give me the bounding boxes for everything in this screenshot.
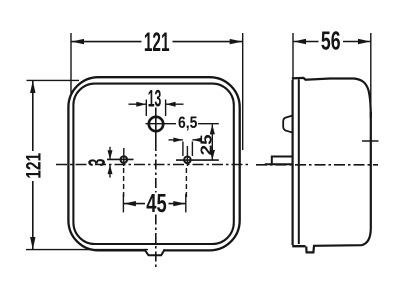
dimension 13 (top hole) [145, 100, 147, 117]
dimension 6,5 (right hole) [182, 142, 184, 157]
svg-text:13: 13 [148, 86, 162, 112]
top hole circle [149, 117, 163, 131]
mounting hole right [184, 157, 191, 164]
side view: mounting tab [272, 157, 293, 165]
lamp front view outer outline [68, 77, 239, 250]
extension line through top hole centre (to 25 dim) [146, 123, 177, 125]
svg-text:121: 121 [144, 26, 170, 57]
horizontal line through left hole [107, 158, 134, 160]
lamp front view inner lens line [73, 84, 233, 244]
svg-text:25: 25 [197, 134, 215, 155]
dimension 121 (left) [27, 79, 80, 81]
side view: back plate right line [298, 79, 300, 244]
svg-text:121: 121 [21, 153, 45, 179]
vertical centerline (front view) [155, 108, 157, 142]
side view: grommet bump on back [283, 116, 293, 133]
side view: lens seam tick [362, 140, 379, 142]
side view: top edge and lens top corner [292, 78, 371, 118]
mounting hole left [121, 156, 128, 163]
dimension 121 (top) [70, 33, 72, 95]
svg-text:45: 45 [146, 189, 166, 218]
dashed line below left hole [123, 168, 125, 200]
side view: back plate left line [292, 80, 294, 245]
dimension 25 (vertical) [211, 124, 213, 160]
side view: 56 dimension [292, 33, 294, 80]
side view: horizontal centerline [256, 164, 378, 166]
dimension 3 (left hole offset) [109, 147, 111, 160]
vertical stub above left hole [123, 148, 125, 166]
dimension 45 (between holes) [122, 194, 124, 213]
svg-text:6,5: 6,5 [178, 114, 198, 133]
side view: bottom cap of plate [292, 245, 305, 247]
horizontal centerline (front view) [56, 164, 250, 166]
dashed line below right hole [185, 168, 187, 200]
bottom notch (front view) [144, 249, 164, 255]
svg-text:56: 56 [321, 26, 341, 55]
vertical line through right hole [186, 146, 188, 166]
svg-text:3: 3 [84, 159, 111, 167]
horizontal line through right hole (to 25 dim) [176, 159, 219, 161]
side view: lens front face and bottom [306, 112, 371, 252]
